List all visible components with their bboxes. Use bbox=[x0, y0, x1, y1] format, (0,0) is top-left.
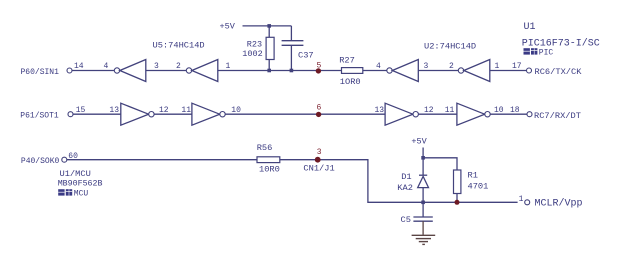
op-amp U2 inverter D bbox=[457, 103, 485, 125]
svg-text:KA2: KA2 bbox=[397, 183, 413, 193]
svg-text:1: 1 bbox=[495, 62, 500, 71]
wire bbox=[225, 113, 385, 115]
svg-text:2: 2 bbox=[449, 62, 454, 71]
svg-text:17: 17 bbox=[512, 62, 522, 71]
value label PIC CJK note bbox=[524, 48, 538, 54]
node R23 top junction bbox=[267, 24, 271, 28]
wire R1 bottom stub bbox=[456, 194, 458, 203]
node D1/C5 junction bbox=[421, 201, 425, 205]
wire bbox=[154, 113, 192, 115]
svg-text:U5:74HC14D: U5:74HC14D bbox=[153, 41, 205, 51]
node C37 bottom junction bbox=[290, 69, 294, 73]
op-amp U2 inverter A bbox=[387, 68, 392, 73]
op-amp U2 inverter B bbox=[458, 68, 463, 73]
diode D1 bbox=[419, 174, 427, 176]
svg-text:R27: R27 bbox=[339, 55, 355, 65]
svg-text:11: 11 bbox=[181, 106, 191, 115]
svg-text:12: 12 bbox=[424, 106, 434, 115]
wire bbox=[73, 113, 121, 115]
svg-text:RC6/TX/CK: RC6/TX/CK bbox=[535, 67, 583, 77]
junction dots (navy) bbox=[267, 24, 425, 204]
svg-text:U1: U1 bbox=[524, 22, 536, 33]
svg-text:6: 6 bbox=[317, 104, 322, 113]
op-amp U5 inverter A (output bubble) bbox=[114, 68, 119, 73]
svg-text:1002: 1002 bbox=[242, 49, 262, 59]
svg-text:4: 4 bbox=[104, 62, 109, 71]
wire ground stub bbox=[422, 221, 424, 235]
node R1 bottom junction bbox=[455, 200, 460, 205]
svg-text:U1/MCU: U1/MCU bbox=[60, 169, 91, 179]
wire C5 top stub bbox=[422, 202, 424, 217]
wire bbox=[146, 70, 186, 72]
node +5V/D1/R1 junction bbox=[421, 156, 425, 160]
node 5 junction bbox=[316, 68, 321, 73]
capacitor C37 bbox=[282, 40, 304, 42]
svg-text:18: 18 bbox=[510, 106, 520, 115]
svg-text:3: 3 bbox=[424, 62, 429, 71]
value label MCU CJK note bbox=[58, 189, 72, 195]
resistor R1 bbox=[454, 170, 461, 194]
svg-text:2: 2 bbox=[176, 62, 181, 71]
svg-text:11: 11 bbox=[445, 106, 455, 115]
svg-text:3: 3 bbox=[154, 62, 159, 71]
wire bbox=[67, 159, 257, 161]
wire C37 top stub bbox=[290, 26, 292, 41]
svg-text:MB90F562B: MB90F562B bbox=[58, 179, 103, 188]
junction dots (maroon) bbox=[315, 68, 460, 205]
node P61/SOT1 terminal bbox=[68, 112, 73, 117]
wire bbox=[280, 160, 518, 203]
svg-text:RC7/RX/DT: RC7/RX/DT bbox=[534, 111, 581, 121]
svg-text:60: 60 bbox=[68, 152, 78, 161]
svg-text:P61/SOT1: P61/SOT1 bbox=[20, 112, 59, 121]
wire R23 bottom stub bbox=[268, 60, 270, 71]
wire +5V stub bottom bbox=[422, 148, 424, 176]
wire +5V rail top bbox=[243, 25, 292, 27]
capacitor C5 bbox=[413, 216, 432, 218]
wire bbox=[490, 70, 527, 72]
wire bbox=[419, 113, 457, 115]
svg-text:R23: R23 bbox=[247, 39, 262, 49]
node P40/SOK0 terminal bbox=[62, 157, 67, 162]
svg-text:1: 1 bbox=[226, 62, 231, 71]
svg-text:10R0: 10R0 bbox=[259, 165, 280, 175]
node R23 bottom junction bbox=[267, 69, 271, 73]
wire bbox=[72, 70, 114, 72]
svg-text:15: 15 bbox=[76, 106, 86, 115]
svg-text:13: 13 bbox=[109, 106, 119, 115]
svg-text:+5V: +5V bbox=[220, 22, 236, 32]
svg-text:MCLR/Vpp: MCLR/Vpp bbox=[535, 197, 583, 209]
node RC7/RX/DT terminal bbox=[527, 112, 532, 117]
wire C37 bottom stub bbox=[290, 45, 292, 70]
svg-text:3: 3 bbox=[317, 148, 322, 157]
svg-text:+5V: +5V bbox=[411, 136, 427, 146]
wire bbox=[363, 70, 387, 72]
svg-text:1OR0: 1OR0 bbox=[340, 77, 361, 87]
op-amp U5 inverter D bbox=[192, 103, 220, 125]
node RC6/TX/CK terminal bbox=[527, 68, 532, 73]
resistor R56 bbox=[257, 157, 280, 163]
op-amp U2 inverter C bbox=[385, 103, 413, 125]
wire bbox=[218, 70, 342, 72]
wire bbox=[490, 113, 527, 115]
svg-text:13: 13 bbox=[375, 106, 385, 115]
svg-text:P40/SOK0: P40/SOK0 bbox=[21, 157, 60, 166]
node P60/SIN1 terminal bbox=[67, 68, 72, 73]
node 6 junction bbox=[316, 112, 321, 117]
ground bbox=[412, 235, 436, 244]
svg-text:U2:74HC14D: U2:74HC14D bbox=[424, 41, 476, 51]
wire +5V branch to R1 bbox=[423, 158, 457, 170]
wire bbox=[418, 70, 458, 72]
op-amp U5 inverter B bbox=[186, 68, 191, 73]
svg-text:5: 5 bbox=[317, 62, 322, 71]
svg-text:10: 10 bbox=[231, 106, 241, 115]
svg-text:R1: R1 bbox=[468, 171, 478, 181]
wire R23 top stub bbox=[268, 26, 270, 37]
op-amp U5 inverter C bbox=[121, 103, 149, 125]
svg-text:C37: C37 bbox=[298, 51, 314, 61]
node MCLR/Vpp terminal bbox=[525, 200, 530, 205]
svg-text:4701: 4701 bbox=[468, 181, 489, 191]
svg-text:4: 4 bbox=[376, 62, 381, 71]
svg-text:R56: R56 bbox=[257, 143, 273, 153]
svg-text:1: 1 bbox=[519, 195, 524, 204]
node 3 junction CN1/J1 bbox=[315, 157, 321, 163]
resistor R23 bbox=[266, 37, 274, 59]
svg-text:CN1/J1: CN1/J1 bbox=[303, 164, 334, 174]
svg-text:P60/SIN1: P60/SIN1 bbox=[21, 68, 60, 77]
svg-text:MCU: MCU bbox=[74, 190, 89, 199]
svg-text:10: 10 bbox=[494, 106, 504, 115]
svg-text:D1: D1 bbox=[401, 172, 411, 182]
svg-text:14: 14 bbox=[74, 62, 84, 71]
svg-text:PIC: PIC bbox=[539, 49, 554, 58]
svg-text:12: 12 bbox=[159, 106, 169, 115]
svg-text:C5: C5 bbox=[401, 215, 411, 225]
svg-text:PIC16F73-I/SC: PIC16F73-I/SC bbox=[522, 37, 600, 49]
resistor R27 bbox=[341, 70, 343, 72]
